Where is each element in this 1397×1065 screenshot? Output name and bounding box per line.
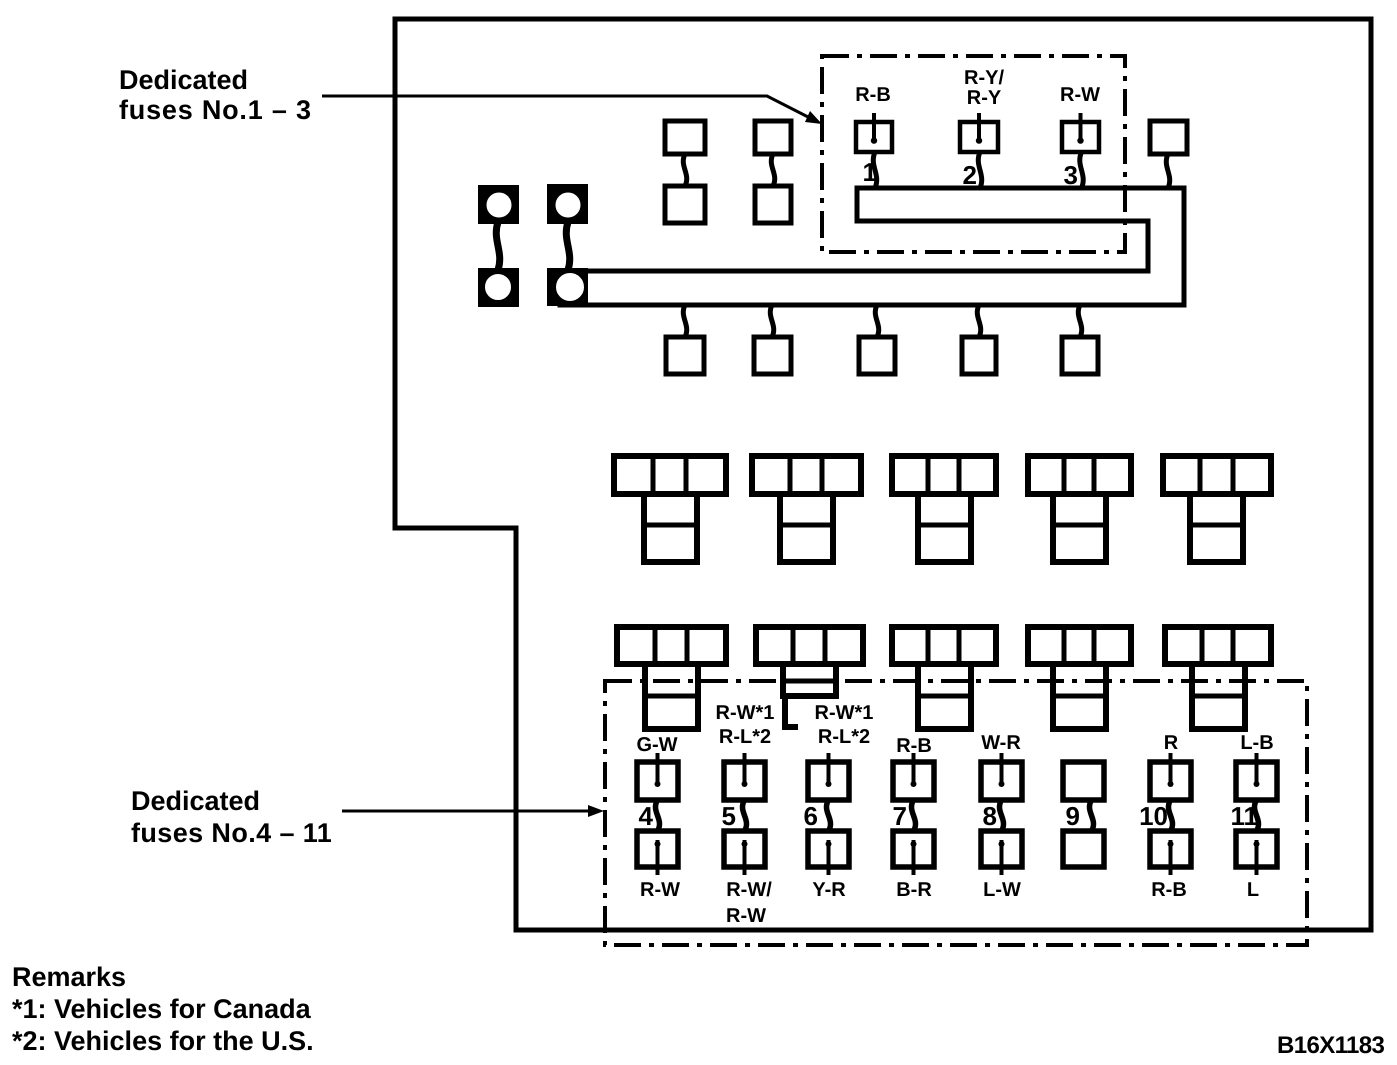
svg-text:2: 2	[963, 160, 977, 190]
svg-text:8: 8	[983, 801, 997, 831]
svg-text:R-L*2: R-L*2	[818, 726, 870, 748]
svg-text:4: 4	[639, 801, 654, 831]
svg-text:R-W*1: R-W*1	[815, 702, 874, 724]
svg-text:L-B: L-B	[1240, 732, 1273, 754]
svg-text:Dedicated: Dedicated	[119, 65, 248, 95]
svg-text:Remarks: Remarks	[12, 962, 126, 992]
svg-text:fuses No.4 – 11: fuses No.4 – 11	[131, 818, 332, 848]
svg-text:10: 10	[1139, 801, 1168, 831]
svg-text:R-W: R-W	[1060, 84, 1100, 106]
svg-text:R-W/: R-W/	[726, 879, 772, 901]
svg-text:L-W: L-W	[983, 879, 1021, 901]
svg-text:Y-R: Y-R	[812, 879, 846, 901]
svg-text:R-W*1: R-W*1	[716, 702, 775, 724]
svg-text:1: 1	[863, 157, 877, 187]
svg-text:R-W: R-W	[726, 905, 766, 927]
svg-text:9: 9	[1066, 801, 1080, 831]
svg-text:*2: Vehicles for the U.S.: *2: Vehicles for the U.S.	[12, 1026, 314, 1056]
svg-text:fuses No.1 – 3: fuses No.1 – 3	[119, 95, 312, 125]
svg-text:R-B: R-B	[896, 735, 932, 757]
svg-text:R: R	[1164, 732, 1179, 754]
svg-text:R-B: R-B	[1151, 879, 1187, 901]
svg-text:B-R: B-R	[896, 879, 932, 901]
svg-text:*1: Vehicles for Canada: *1: Vehicles for Canada	[12, 994, 312, 1024]
svg-text:7: 7	[893, 801, 907, 831]
svg-text:R-L*2: R-L*2	[719, 726, 771, 748]
svg-text:R-W: R-W	[640, 879, 680, 901]
svg-text:R-B: R-B	[855, 84, 891, 106]
svg-text:3: 3	[1064, 160, 1078, 190]
svg-text:6: 6	[804, 801, 818, 831]
svg-text:R-Y/: R-Y/	[964, 67, 1004, 89]
svg-text:11: 11	[1231, 801, 1259, 831]
svg-text:G-W: G-W	[636, 734, 677, 756]
svg-text:Dedicated: Dedicated	[131, 786, 260, 816]
svg-text:L: L	[1247, 879, 1259, 901]
svg-text:B16X1183: B16X1183	[1277, 1032, 1385, 1059]
svg-text:5: 5	[722, 801, 736, 831]
svg-text:R-Y: R-Y	[967, 87, 1002, 109]
svg-text:W-R: W-R	[981, 732, 1021, 754]
